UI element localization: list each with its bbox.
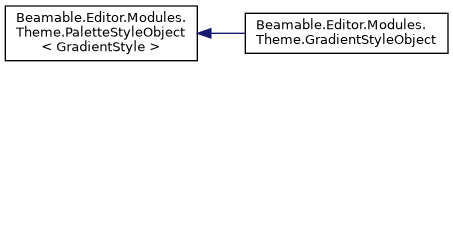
Node1 label line 2: "Theme.PaletteStyleObject" <box>16 26 185 40</box>
Node1 label line 1: "Beamable.Editor.Modules." <box>17 11 184 22</box>
Node2 label line 1: "Beamable.Editor.Modules." <box>257 18 424 29</box>
Node2 label line 2: "Theme.GradientStyleObject" <box>256 33 436 47</box>
node Node2 box: derived class Beamable.Editor.Modules.Theme.GradientStyleObject <box>245 13 448 53</box>
Node1 label line 3: "< GradientStyle >" <box>43 40 159 54</box>
inheritance edge arrowhead pointing at base class Node1 <box>198 29 211 38</box>
inheritance edge Node2 -> Node1: wire (midnightblue) <box>211 32 245 34</box>
node Node1 box: base class Beamable.Editor.Modules.Theme.PaletteStyleObject< GradientStyle > <box>5 6 197 61</box>
doxygen/graphviz inheritance diagram, 453x67 <box>0 0 453 67</box>
